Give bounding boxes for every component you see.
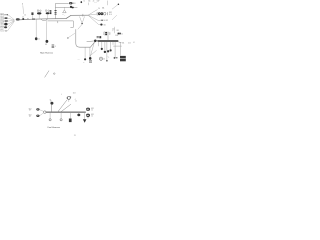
- svg-text:5611: 5611: [115, 35, 118, 37]
- svg-text:BT 82: BT 82: [0, 27, 4, 29]
- svg-text:56: 56: [109, 32, 111, 34]
- svg-text:5612: 5612: [109, 12, 112, 14]
- svg-text:WH 24: WH 24: [0, 15, 4, 17]
- svg-text:24: 24: [98, 8, 100, 10]
- svg-text:CP 81: CP 81: [0, 24, 4, 26]
- svg-text:56: 56: [103, 59, 105, 61]
- svg-text:SL 24: SL 24: [0, 31, 4, 33]
- svg-text:561: 561: [88, 1, 90, 3]
- svg-text:Main Harness: Main Harness: [40, 51, 53, 54]
- svg-text:10: 10: [24, 14, 26, 16]
- svg-text:245: 245: [117, 30, 120, 32]
- svg-text:11: 11: [74, 135, 76, 137]
- svg-text:10 4: 10 4: [109, 14, 112, 16]
- svg-text:561: 561: [122, 43, 125, 45]
- svg-text:12: 12: [109, 34, 111, 36]
- svg-text:1187: 1187: [97, 1, 100, 3]
- svg-text:10 4: 10 4: [73, 92, 76, 94]
- svg-text:12: 12: [121, 33, 123, 35]
- svg-text:24: 24: [93, 1, 95, 3]
- svg-text:4 12: 4 12: [128, 42, 131, 44]
- svg-text:561: 561: [45, 44, 47, 46]
- svg-text:161: 161: [102, 8, 105, 10]
- svg-text:56 1: 56 1: [78, 59, 81, 61]
- svg-text:Fuel Harness: Fuel Harness: [48, 126, 60, 129]
- svg-text:561: 561: [104, 24, 107, 26]
- svg-text:56 121: 56 121: [104, 20, 108, 22]
